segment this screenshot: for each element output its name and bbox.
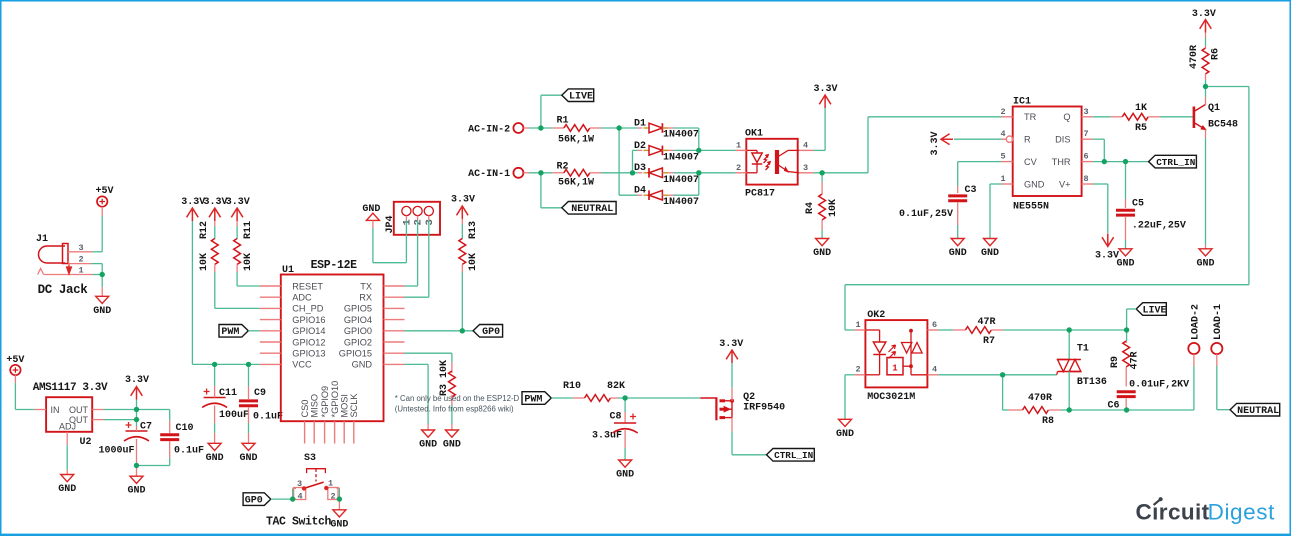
svg-text:2: 2 xyxy=(1000,107,1005,117)
svg-text:1: 1 xyxy=(855,320,860,330)
wire 555 GND pin to ground xyxy=(990,184,1002,239)
junction C6 bottom xyxy=(1124,407,1129,412)
svg-text:LOAD-1: LOAD-1 xyxy=(1213,304,1224,340)
svg-text:.22uF,25V: .22uF,25V xyxy=(1132,221,1186,232)
junction node X (R1/D1/D4) xyxy=(616,125,621,130)
svg-text:C5: C5 xyxy=(1132,199,1144,210)
svg-text:1N4007: 1N4007 xyxy=(663,152,699,163)
svg-text:3.3V: 3.3V xyxy=(1095,251,1119,262)
resistor R11 10K xyxy=(234,221,254,272)
svg-text:LIVE: LIVE xyxy=(569,92,593,103)
svg-text:*GPIO10: *GPIO10 xyxy=(330,381,340,418)
svg-text:1N4007: 1N4007 xyxy=(663,197,699,208)
wire 555 CV to C3 xyxy=(958,162,1002,193)
svg-text:LOAD-2: LOAD-2 xyxy=(1190,304,1201,340)
capacitor C7 1000uF xyxy=(98,422,152,466)
wire S3 pins 1/2 to ground xyxy=(336,488,339,510)
diode D2 1N4007 xyxy=(633,141,700,173)
wire AC-IN-2 to R1 xyxy=(523,127,552,129)
svg-text:56K,1W: 56K,1W xyxy=(558,178,594,189)
diode D4 1N4007 xyxy=(619,173,699,208)
flag LIVE (output) xyxy=(1136,303,1166,317)
wire 555 V+ to 3.3V xyxy=(1093,184,1108,233)
wire node W to OK1 pin2 xyxy=(699,172,736,174)
svg-text:GP0: GP0 xyxy=(245,496,263,507)
svg-text:(Untested. Info from esp8266 w: (Untested. Info from esp8266 wiki) xyxy=(395,405,514,414)
junction T1 top xyxy=(1067,327,1072,332)
svg-text:4: 4 xyxy=(932,365,937,375)
svg-text:J1: J1 xyxy=(36,234,48,245)
transistor Q2 IRF9540 xyxy=(700,388,785,432)
junction GPIO0/R13 xyxy=(460,328,465,333)
ground GND (C7) xyxy=(127,476,145,497)
connector J1 DC Jack xyxy=(36,234,93,297)
svg-text:470R: 470R xyxy=(1189,45,1200,69)
svg-text:Digest: Digest xyxy=(1208,500,1276,525)
wire to LIVE flag xyxy=(541,95,562,128)
svg-text:1: 1 xyxy=(328,479,333,489)
wire to NEUTRAL flag xyxy=(541,173,562,208)
svg-text:3: 3 xyxy=(803,163,808,173)
flag PWM (GPIO14) xyxy=(219,325,248,339)
wire 555 THR to CTRL_IN xyxy=(1093,161,1149,163)
svg-text:0.1uF: 0.1uF xyxy=(174,446,204,457)
junction LIVE/R9 xyxy=(1124,327,1129,332)
wire R12 to CH_PD xyxy=(215,272,260,308)
svg-text:3.3V: 3.3V xyxy=(451,195,475,206)
junction THR/C5 xyxy=(1123,159,1128,164)
svg-text:5: 5 xyxy=(1000,152,1005,162)
svg-text:2: 2 xyxy=(736,163,741,173)
resistor R13 10K pullup xyxy=(451,195,479,331)
svg-text:2: 2 xyxy=(78,255,83,265)
svg-text:100uF: 100uF xyxy=(219,410,249,421)
svg-text:3: 3 xyxy=(1083,107,1088,117)
svg-text:RESET: RESET xyxy=(292,281,323,291)
resistor R6 470R xyxy=(1189,9,1222,87)
svg-text:GND: GND xyxy=(981,248,999,259)
ground GND (IC1) xyxy=(981,239,999,260)
svg-text:8: 8 xyxy=(1083,174,1088,184)
svg-text:0.01uF,2KV: 0.01uF,2KV xyxy=(1129,380,1189,391)
svg-text:1: 1 xyxy=(1000,174,1005,184)
svg-text:2: 2 xyxy=(413,219,425,225)
svg-text:R4: R4 xyxy=(805,202,816,214)
svg-text:82K: 82K xyxy=(607,381,625,392)
connector JP4 xyxy=(385,202,440,240)
resistor R1 56K,1W xyxy=(553,116,619,146)
svg-text:R13: R13 xyxy=(468,221,479,239)
svg-text:47R: 47R xyxy=(1130,351,1141,369)
logo CircuitDigest xyxy=(1136,497,1276,524)
diode D1 1N4007 xyxy=(619,118,699,140)
junction AC-IN-2/LIVE xyxy=(538,125,543,130)
junction DIS/THR xyxy=(1102,159,1107,164)
svg-text:AMS1117 3.3V: AMS1117 3.3V xyxy=(33,382,108,394)
junction C11 top xyxy=(212,362,217,367)
svg-text:1: 1 xyxy=(892,364,898,374)
svg-text:DC Jack: DC Jack xyxy=(38,283,89,297)
wire Q1 collector node xyxy=(1205,87,1207,98)
supply 3.3V (U2 output) xyxy=(125,375,149,400)
ground GND (C11) xyxy=(206,443,224,464)
svg-text:1N4007: 1N4007 xyxy=(663,175,699,186)
svg-text:R5: R5 xyxy=(1135,123,1147,134)
junction S3 pin2 xyxy=(337,496,342,501)
svg-text:GND: GND xyxy=(330,519,348,530)
svg-text:3: 3 xyxy=(297,479,302,489)
svg-text:4: 4 xyxy=(803,141,808,151)
flag GP0 (S3) xyxy=(243,493,271,507)
pad AC-IN-1 xyxy=(468,168,523,180)
wire JP4 pin1 to GND xyxy=(373,220,407,262)
svg-text:* Can only be used on the ESP1: * Can only be used on the ESP12-D xyxy=(395,394,520,403)
svg-text:R11: R11 xyxy=(243,221,254,239)
svg-text:BT136: BT136 xyxy=(1077,377,1107,388)
svg-text:47R: 47R xyxy=(977,317,995,328)
junction node W (D3/D4) xyxy=(696,170,701,175)
junction node Z (D1/D2) xyxy=(696,148,701,153)
svg-text:3.3V: 3.3V xyxy=(1192,9,1216,20)
svg-text:1000uF: 1000uF xyxy=(98,446,134,457)
capacitor C3 0.1uF,25V xyxy=(899,185,977,239)
svg-text:C10: C10 xyxy=(175,423,193,434)
svg-text:PWM: PWM xyxy=(221,327,239,338)
svg-text:GND: GND xyxy=(616,470,634,481)
svg-text:6: 6 xyxy=(932,320,937,330)
svg-text:1: 1 xyxy=(401,219,413,225)
svg-text:4: 4 xyxy=(297,492,302,502)
svg-text:1N4007: 1N4007 xyxy=(663,130,699,141)
svg-text:C9: C9 xyxy=(254,388,266,399)
supply 3.3V (rail x3 labels) xyxy=(181,197,249,221)
resistor R12 10K xyxy=(199,221,218,272)
ground GND (S3) xyxy=(330,510,348,531)
svg-text:Q1: Q1 xyxy=(1208,103,1220,114)
svg-text:GPIO5: GPIO5 xyxy=(344,304,372,314)
capacitor C10 0.1uF xyxy=(137,410,205,466)
svg-text:ADC: ADC xyxy=(292,293,312,303)
svg-text:THR: THR xyxy=(1052,157,1071,167)
flag GP0 (GPIO0) xyxy=(473,325,503,339)
svg-text:NE555N: NE555N xyxy=(1013,202,1049,213)
flag CTRL_IN (Q2) xyxy=(767,449,815,462)
svg-text:GND: GND xyxy=(443,440,461,451)
resistor R2 56K,1W xyxy=(553,162,633,189)
wire 3.3V to OK1 pin4 xyxy=(814,108,825,150)
svg-text:+5V: +5V xyxy=(95,186,113,197)
svg-text:SCLK: SCLK xyxy=(349,393,359,418)
wire U2 ADJ to ground xyxy=(66,445,68,474)
wire to LIVE output xyxy=(1127,309,1137,330)
svg-text:MOSI: MOSI xyxy=(340,394,350,417)
svg-text:GND: GND xyxy=(58,484,76,495)
wire LOAD-1 to NEUTRAL xyxy=(1217,354,1230,410)
svg-text:0.1uF,25V: 0.1uF,25V xyxy=(899,209,953,220)
ground GND (C9) xyxy=(239,443,257,464)
wire Q1 collector to OK2 pin1 xyxy=(845,87,1249,331)
wire LOAD-2 to rail xyxy=(1193,354,1195,410)
flag NEUTRAL (input) xyxy=(562,202,616,216)
wire ESP GND to ground xyxy=(405,364,429,430)
optotriac OK2 MOC3021M xyxy=(854,310,938,403)
svg-text:R8: R8 xyxy=(1042,416,1054,427)
svg-text:DIS: DIS xyxy=(1055,135,1070,145)
svg-text:Q: Q xyxy=(1063,112,1070,122)
svg-text:AC-IN-2: AC-IN-2 xyxy=(468,124,510,135)
pad LOAD-2 xyxy=(1188,304,1201,354)
ground GND (C3) xyxy=(949,239,967,260)
wire R7 out to LIVE rail xyxy=(1069,329,1126,331)
wire Q2 drain to CTRL_IN xyxy=(732,432,767,455)
flag LIVE (input) xyxy=(562,89,594,103)
svg-text:CH_PD: CH_PD xyxy=(292,304,324,314)
wire +5V to J1 pin 3 xyxy=(92,207,102,252)
svg-text:6: 6 xyxy=(1083,152,1088,162)
svg-text:GND: GND xyxy=(813,248,831,259)
wire J1 pin 2 to pin 1 node xyxy=(91,264,102,275)
svg-text:1: 1 xyxy=(736,141,741,151)
svg-text:ADJ: ADJ xyxy=(59,422,76,432)
wire JP4 pin3 to RX xyxy=(405,240,429,297)
wire 3.3V to Q2 xyxy=(731,363,733,388)
junction J1 gnd node xyxy=(100,272,105,277)
svg-text:MOC3021M: MOC3021M xyxy=(867,392,915,403)
capacitor C9 0.1uF xyxy=(239,364,283,443)
resistor R7 47R xyxy=(939,317,1070,347)
ground GND (ESP) xyxy=(419,430,437,451)
wire D1 cathode to node Z xyxy=(674,128,699,150)
svg-text:GPIO14: GPIO14 xyxy=(292,326,325,336)
svg-text:GPIO12: GPIO12 xyxy=(292,337,325,347)
svg-text:GPIO16: GPIO16 xyxy=(292,315,325,325)
wire GP0 to S3 pins 3/4 xyxy=(271,488,296,499)
svg-text:GND: GND xyxy=(949,248,967,259)
svg-text:PC817: PC817 xyxy=(745,189,775,200)
svg-text:56K,1W: 56K,1W xyxy=(558,135,594,146)
svg-text:GPIO0: GPIO0 xyxy=(344,326,372,336)
wire OK2 pin2 to ground xyxy=(845,375,854,420)
svg-text:1: 1 xyxy=(78,266,83,276)
svg-text:C6: C6 xyxy=(1107,401,1119,412)
ground GND (R4) xyxy=(813,239,831,260)
wire PWM to GPIO14 xyxy=(248,330,259,332)
pad AC-IN-2 xyxy=(468,123,523,135)
wire R11 to RESET xyxy=(237,272,260,286)
wire JP4 pin2 to TX xyxy=(405,240,418,286)
svg-text:GND: GND xyxy=(206,453,224,464)
svg-text:GPIO2: GPIO2 xyxy=(344,337,372,347)
svg-text:CV: CV xyxy=(1024,157,1038,167)
resistor R5 1K xyxy=(1093,103,1193,134)
wire +5V to U2 IN xyxy=(15,375,34,409)
IC IC1 NE555N xyxy=(1000,97,1092,213)
junction C7 bottom xyxy=(134,463,139,468)
junction node Y (R2/D3/D2) xyxy=(630,170,635,175)
wire OK2 pin4 net xyxy=(939,374,1057,376)
flag PWM (source) xyxy=(522,392,551,406)
wire OK1 pin3 to 555 TR xyxy=(868,117,1002,173)
svg-text:VCC: VCC xyxy=(292,360,312,370)
svg-text:4: 4 xyxy=(1000,129,1005,139)
svg-text:TX: TX xyxy=(360,281,372,291)
svg-text:3.3V: 3.3V xyxy=(719,339,743,350)
svg-text:GPIO4: GPIO4 xyxy=(344,315,372,325)
resistor R9 47R xyxy=(1110,330,1141,387)
svg-text:ESP-12E: ESP-12E xyxy=(311,259,358,272)
ground GND (C8) xyxy=(616,460,634,481)
capacitor C8 3.3uF xyxy=(592,398,638,460)
svg-text:3.3V: 3.3V xyxy=(930,131,941,155)
svg-text:GND: GND xyxy=(836,429,854,440)
junction R8/T1 bottom xyxy=(1067,407,1072,412)
ground GND (R3) xyxy=(443,430,461,451)
svg-text:3.3V: 3.3V xyxy=(181,197,205,208)
wire OK1 pin3 net xyxy=(814,172,868,174)
svg-text:*GPIO9: *GPIO9 xyxy=(320,386,330,418)
supply +5V (J1) xyxy=(95,186,113,207)
svg-text:10K: 10K xyxy=(199,253,210,271)
supply +5V (U2 input) xyxy=(6,355,24,375)
svg-text:GND: GND xyxy=(127,486,145,497)
svg-text:GND: GND xyxy=(1116,258,1134,269)
svg-text:3: 3 xyxy=(78,243,83,253)
switch S3 xyxy=(266,453,338,529)
svg-text:IRF9540: IRF9540 xyxy=(743,403,785,414)
svg-text:JP4: JP4 xyxy=(385,215,396,233)
svg-text:V+: V+ xyxy=(1059,179,1071,189)
junction U2 OUT1 xyxy=(134,407,139,412)
svg-text:AC-IN-1: AC-IN-1 xyxy=(468,169,510,180)
wire C7 to ground xyxy=(136,466,138,477)
svg-text:PWM: PWM xyxy=(524,394,542,405)
ground GND (C5) xyxy=(1116,249,1134,269)
svg-text:R10: R10 xyxy=(563,381,581,392)
junction OK2 pin4/R8 xyxy=(1000,372,1005,377)
triac T1 BT136 xyxy=(1057,330,1107,410)
supply 3.3V (OK1 pin4) xyxy=(813,84,837,108)
svg-text:10K: 10K xyxy=(468,253,479,271)
svg-text:S3: S3 xyxy=(304,453,316,464)
svg-text:CTRL_IN: CTRL_IN xyxy=(774,450,813,461)
capacitor C6 0.01uF,2KV xyxy=(1107,380,1189,412)
junction S3 pin4 xyxy=(290,496,295,501)
svg-text:0.1uF: 0.1uF xyxy=(253,412,283,423)
svg-text:Q2: Q2 xyxy=(743,392,755,403)
svg-text:GND: GND xyxy=(362,204,380,215)
svg-text:R7: R7 xyxy=(983,336,995,347)
svg-text:2: 2 xyxy=(330,492,335,502)
svg-text:10K: 10K xyxy=(828,199,839,217)
svg-text:GND: GND xyxy=(352,360,373,370)
svg-text:GND: GND xyxy=(419,440,437,451)
svg-text:GND: GND xyxy=(93,306,111,317)
wire 555 DIS to THR xyxy=(1093,139,1105,161)
svg-text:7: 7 xyxy=(1083,129,1088,139)
svg-text:RX: RX xyxy=(359,293,372,303)
resistor R10 82K xyxy=(551,381,700,401)
wire 3.3V to 555 pin4 xyxy=(954,138,1002,140)
junction C9 top xyxy=(246,362,251,367)
wire J1 node to ground xyxy=(101,275,103,297)
ground GND (JP4) xyxy=(362,204,380,220)
capacitor C5 .22uF,25V xyxy=(1116,162,1186,249)
svg-text:R9: R9 xyxy=(1110,356,1121,368)
wire Q1 emitter to ground xyxy=(1205,138,1207,249)
wire bottom rail xyxy=(1069,409,1194,411)
svg-text:NEUTRAL: NEUTRAL xyxy=(1237,406,1279,417)
ground GND (U2 ADJ) xyxy=(58,475,76,496)
svg-text:OUT: OUT xyxy=(69,405,89,415)
svg-text:3.3V: 3.3V xyxy=(125,375,149,386)
svg-text:LIVE: LIVE xyxy=(1142,305,1166,316)
svg-text:TAC Switch: TAC Switch xyxy=(266,516,332,529)
supply 3.3V (Q2 source) xyxy=(719,339,743,363)
resistor R3 10K (GPIO15) xyxy=(405,353,456,430)
resistor R4 10K xyxy=(805,173,839,239)
optocoupler OK1 PC817 xyxy=(736,129,814,200)
svg-text:IN: IN xyxy=(51,405,60,415)
note ESP12-D usage xyxy=(395,394,520,414)
svg-text:GP0: GP0 xyxy=(482,327,500,338)
svg-text:GND: GND xyxy=(239,453,257,464)
wire GPIO0 net xyxy=(405,330,474,332)
regulator U2 AMS1117-3.3 xyxy=(33,382,108,448)
capacitor C11 100uF xyxy=(202,364,249,443)
svg-text:CS0: CS0 xyxy=(300,400,310,418)
svg-text:R12: R12 xyxy=(199,221,210,239)
svg-text:TR: TR xyxy=(1024,112,1037,122)
flag NEUTRAL (output) xyxy=(1230,403,1280,417)
svg-text:GND: GND xyxy=(1024,179,1045,189)
wire node Z to OK1 pin1 xyxy=(699,149,736,151)
resistor R8 470R xyxy=(1003,375,1070,427)
pad LOAD-1 xyxy=(1211,304,1224,354)
ground GND (OK2) xyxy=(836,419,854,440)
supply 3.3V (555 V+) xyxy=(1095,234,1119,262)
junction Q1 collector/R6 xyxy=(1203,84,1208,89)
svg-text:GPIO15: GPIO15 xyxy=(339,349,372,359)
svg-text:R: R xyxy=(1024,135,1031,145)
supply 3.3V (555 reset) xyxy=(930,131,953,155)
junction AC-IN-1/NEUTRAL xyxy=(538,170,543,175)
wire U2 OUT rail xyxy=(103,400,169,427)
wire 3.3V rail to VCC xyxy=(192,221,259,364)
IC U1 ESP-12E xyxy=(260,259,405,444)
diode D3 1N4007 xyxy=(633,163,700,186)
svg-text:1K: 1K xyxy=(1135,103,1147,114)
svg-text:C3: C3 xyxy=(964,185,976,196)
svg-text:U2: U2 xyxy=(79,437,91,448)
svg-text:3.3V: 3.3V xyxy=(203,197,227,208)
ground GND (J1) xyxy=(93,296,111,317)
svg-text:NEUTRAL: NEUTRAL xyxy=(571,204,613,215)
junction OK1 pin3/R4 xyxy=(819,170,824,175)
svg-text:Cırcuit: Cırcuit xyxy=(1136,500,1210,525)
svg-text:3: 3 xyxy=(424,219,436,225)
svg-text:T1: T1 xyxy=(1077,344,1089,355)
svg-text:R6: R6 xyxy=(1211,48,1222,60)
svg-text:GPIO13: GPIO13 xyxy=(292,349,325,359)
svg-text:3.3V: 3.3V xyxy=(813,84,837,95)
flag CTRL_IN (555) xyxy=(1149,155,1197,168)
svg-text:GND: GND xyxy=(1196,258,1214,269)
svg-text:BC548: BC548 xyxy=(1208,120,1238,131)
svg-text:3.3V: 3.3V xyxy=(226,197,250,208)
wire node X vertical xyxy=(618,128,620,195)
ground GND (Q1) xyxy=(1196,249,1214,269)
svg-text:3.3uF: 3.3uF xyxy=(592,431,622,442)
